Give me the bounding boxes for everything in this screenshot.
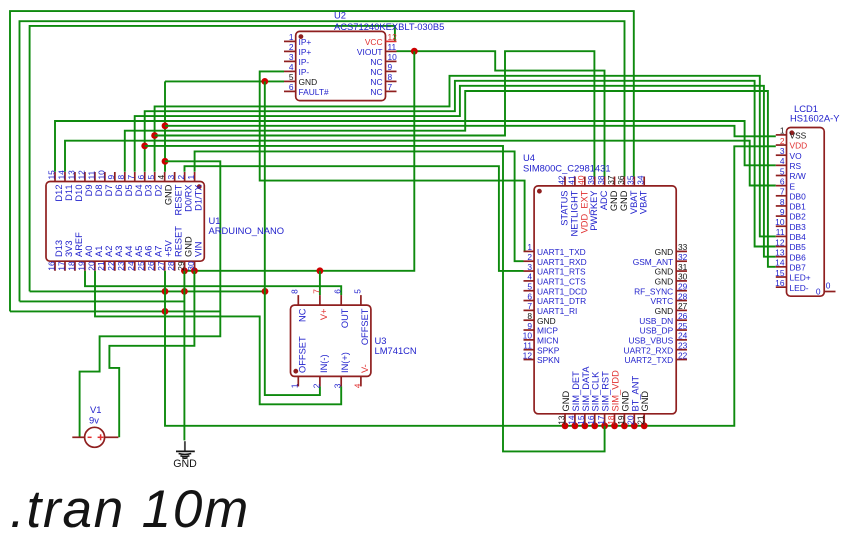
svg-text:29: 29 xyxy=(176,261,186,271)
svg-text:VRTC: VRTC xyxy=(651,296,674,306)
svg-text:11: 11 xyxy=(776,227,785,237)
svg-text:10: 10 xyxy=(388,52,398,62)
wire net A0 U1 pin19 to U3 pin6 OUT xyxy=(85,271,341,295)
svg-text:IN(-): IN(-) xyxy=(319,354,329,373)
svg-text:5: 5 xyxy=(289,72,294,82)
svg-text:8: 8 xyxy=(388,72,393,82)
svg-text:2: 2 xyxy=(527,252,532,262)
svg-text:D11: D11 xyxy=(64,185,74,201)
svg-text:15: 15 xyxy=(576,415,586,425)
svg-text:20: 20 xyxy=(86,261,96,271)
wire net VIOUT branch down to pins 29/30 row xyxy=(181,51,414,274)
svg-text:GND: GND xyxy=(655,276,674,286)
svg-text:NC: NC xyxy=(370,77,382,87)
wire net D1/TX U1 pin1 to U4 pin2 UART1_RXD xyxy=(195,151,524,261)
svg-text:GSM_ANT: GSM_ANT xyxy=(633,257,674,267)
wire net VCC loop to U2 pin12 xyxy=(30,26,395,292)
svg-text:17: 17 xyxy=(56,261,66,271)
svg-text:34: 34 xyxy=(636,175,646,185)
svg-text:GND: GND xyxy=(561,391,571,412)
svg-text:VIOUT: VIOUT xyxy=(357,47,383,57)
svg-text:GND: GND xyxy=(655,267,674,277)
svg-text:15: 15 xyxy=(775,268,785,278)
svg-text:SIM_DET: SIM_DET xyxy=(571,371,581,412)
svg-text:IP+: IP+ xyxy=(299,47,312,57)
svg-text:ACS71240KEXBLT-030B5: ACS71240KEXBLT-030B5 xyxy=(334,21,444,32)
svg-text:MICP: MICP xyxy=(537,326,558,336)
svg-text:IP-: IP- xyxy=(299,67,310,77)
svg-text:U4: U4 xyxy=(523,152,535,163)
svg-text:VDD_EXT: VDD_EXT xyxy=(579,190,589,233)
svg-text:A0: A0 xyxy=(84,246,94,257)
svg-text:9: 9 xyxy=(780,207,785,217)
svg-text:42: 42 xyxy=(556,175,566,185)
svg-text:13: 13 xyxy=(66,170,76,180)
svg-text:D1/TX: D1/TX xyxy=(194,185,204,211)
svg-text:38: 38 xyxy=(596,175,606,185)
svg-text:LED+: LED+ xyxy=(790,273,811,283)
svg-text:GND: GND xyxy=(655,306,674,316)
svg-text:2: 2 xyxy=(289,42,294,52)
svg-text:14: 14 xyxy=(566,415,576,425)
svg-text:12: 12 xyxy=(76,170,86,180)
svg-text:9: 9 xyxy=(388,62,393,72)
svg-text:DB7: DB7 xyxy=(790,262,807,272)
svg-text:12: 12 xyxy=(388,32,398,42)
svg-text:D8: D8 xyxy=(94,185,104,197)
svg-text:15: 15 xyxy=(46,170,56,180)
svg-text:40: 40 xyxy=(576,175,586,185)
svg-text:5: 5 xyxy=(527,282,532,292)
svg-text:10: 10 xyxy=(775,217,785,227)
svg-text:4: 4 xyxy=(527,272,532,282)
wire net VIOUT U2 pin11 to U4 pin38 ADC xyxy=(397,48,605,177)
svg-text:24: 24 xyxy=(678,331,688,341)
svg-text:GND: GND xyxy=(655,247,674,257)
svg-text:SIM_VDD: SIM_VDD xyxy=(611,370,621,412)
svg-text:10: 10 xyxy=(523,331,533,341)
svg-text:OFFSET: OFFSET xyxy=(297,336,307,373)
svg-text:USB_DN: USB_DN xyxy=(639,316,673,326)
svg-text:DB4: DB4 xyxy=(790,232,807,242)
svg-text:29: 29 xyxy=(678,282,688,292)
svg-text:D6: D6 xyxy=(114,185,124,197)
svg-text:5: 5 xyxy=(146,175,156,180)
svg-text:UART1_CTS: UART1_CTS xyxy=(537,276,586,286)
svg-text:5: 5 xyxy=(352,289,362,294)
svg-text:7: 7 xyxy=(126,175,136,180)
svg-text:VCC: VCC xyxy=(365,37,383,47)
svg-text:36: 36 xyxy=(616,175,626,185)
svg-text:26: 26 xyxy=(678,311,688,321)
svg-text:LM741CN: LM741CN xyxy=(375,345,417,356)
IC LCD1 HS1602A-Y 16x2 display (pins 1-16 and pin 0) xyxy=(775,103,840,297)
wire net D11 U1 pin14 to LCD E xyxy=(65,141,776,186)
wire net GND to U1 pin4 xyxy=(162,81,169,171)
svg-text:BT_ANT: BT_ANT xyxy=(630,376,640,412)
svg-text:U2: U2 xyxy=(334,10,346,21)
wire net D2 branch to U4 pin39 PWRKEY xyxy=(155,51,595,176)
svg-text:4: 4 xyxy=(289,62,294,72)
svg-text:NC: NC xyxy=(370,57,382,67)
svg-text:4: 4 xyxy=(352,383,362,388)
svg-text:UART1_DCD: UART1_DCD xyxy=(537,286,587,296)
wire net GND to battery minus xyxy=(80,161,221,437)
svg-text:21: 21 xyxy=(96,261,106,271)
svg-text:DB5: DB5 xyxy=(790,242,807,252)
wire net GND U2 pin5 line xyxy=(165,78,284,85)
svg-text:A1: A1 xyxy=(94,246,104,257)
svg-text:NC: NC xyxy=(297,308,307,322)
svg-text:UART1_RXD: UART1_RXD xyxy=(537,257,587,267)
svg-text:SIM_RST: SIM_RST xyxy=(601,371,611,412)
svg-text:VO: VO xyxy=(790,151,803,161)
svg-text:7: 7 xyxy=(780,187,785,197)
svg-text:7: 7 xyxy=(311,289,321,294)
svg-text:12: 12 xyxy=(523,350,533,360)
svg-text:41: 41 xyxy=(566,175,576,185)
svg-text:GND: GND xyxy=(184,236,194,257)
svg-text:GND: GND xyxy=(640,391,650,412)
svg-text:25: 25 xyxy=(678,321,688,331)
svg-text:8: 8 xyxy=(527,311,532,321)
svg-text:31: 31 xyxy=(678,262,688,272)
svg-text:16: 16 xyxy=(586,415,596,425)
svg-text:DB0: DB0 xyxy=(790,191,807,201)
wire net D3 U1 pin6 to LCD DB5 xyxy=(141,81,776,247)
svg-text:3V3: 3V3 xyxy=(64,240,74,257)
svg-text:NC: NC xyxy=(370,67,382,77)
svg-text:D13: D13 xyxy=(54,240,64,257)
svg-text:HS1602A-Y: HS1602A-Y xyxy=(790,113,840,124)
svg-text:0: 0 xyxy=(826,281,831,291)
svg-text:RESET: RESET xyxy=(174,226,184,257)
wire net VIN U1 pin30 to battery plus xyxy=(109,271,194,438)
svg-text:8: 8 xyxy=(780,197,785,207)
svg-text:UART2_TXD: UART2_TXD xyxy=(624,355,673,365)
svg-text:MICN: MICN xyxy=(537,335,558,345)
svg-text:D5: D5 xyxy=(124,185,134,197)
svg-text:10: 10 xyxy=(96,170,106,180)
svg-text:3: 3 xyxy=(780,146,785,156)
svg-text:27: 27 xyxy=(678,301,688,311)
svg-text:16: 16 xyxy=(46,261,56,271)
svg-text:6: 6 xyxy=(136,175,146,180)
svg-text:SIM_CLK: SIM_CLK xyxy=(591,371,601,412)
svg-text:22: 22 xyxy=(106,261,116,271)
voltage source V1 9v xyxy=(72,404,118,447)
svg-text:GND: GND xyxy=(164,184,174,205)
svg-text:18: 18 xyxy=(606,415,616,425)
wire net D2 U1 pin5 to LCD DB4 xyxy=(151,76,776,237)
svg-text:23: 23 xyxy=(116,261,126,271)
svg-text:30: 30 xyxy=(186,261,196,271)
svg-text:2: 2 xyxy=(176,175,186,180)
svg-text:3: 3 xyxy=(289,52,294,62)
svg-text:SPKN: SPKN xyxy=(537,355,560,365)
svg-text:AREF: AREF xyxy=(74,232,84,257)
wire net +5V/VBAT loop (left-top) xyxy=(10,11,634,311)
svg-text:D7: D7 xyxy=(104,185,114,197)
svg-text:SPKP: SPKP xyxy=(537,345,560,355)
svg-text:A7: A7 xyxy=(154,246,164,257)
wire net D12 U1 pin15 to LCD RS xyxy=(55,121,776,172)
svg-text:UART1_RI: UART1_RI xyxy=(537,306,577,316)
svg-text:32: 32 xyxy=(678,252,688,262)
svg-text:IP+: IP+ xyxy=(299,37,312,47)
svg-text:GND: GND xyxy=(620,391,630,412)
svg-text:OFFSET: OFFSET xyxy=(360,308,370,345)
svg-text:1: 1 xyxy=(289,32,294,42)
svg-text:11: 11 xyxy=(388,42,397,52)
svg-text:FAULT#: FAULT# xyxy=(299,87,329,97)
svg-text:6: 6 xyxy=(527,291,532,301)
svg-text:D2: D2 xyxy=(154,185,164,197)
svg-text:OUT: OUT xyxy=(340,308,350,328)
svg-text:UART1_DTR: UART1_DTR xyxy=(537,296,586,306)
wire net GND rail to U1 pin29 xyxy=(20,300,185,302)
svg-text:A4: A4 xyxy=(124,246,134,257)
svg-text:5: 5 xyxy=(780,166,785,176)
svg-text:V+: V+ xyxy=(319,309,329,321)
svg-text:USB_VBUS: USB_VBUS xyxy=(629,335,674,345)
svg-text:11: 11 xyxy=(523,341,532,351)
ground symbol GND xyxy=(173,441,197,470)
svg-text:9: 9 xyxy=(106,175,116,180)
svg-text:28: 28 xyxy=(678,291,688,301)
svg-text:2: 2 xyxy=(311,383,321,388)
wire net IP- U2 pin4 to U4 pin1 UART1_TXD xyxy=(260,71,525,251)
svg-text:VBAT: VBAT xyxy=(629,190,639,214)
svg-text:6: 6 xyxy=(333,289,343,294)
svg-text:UART2_RXD: UART2_RXD xyxy=(624,345,674,355)
svg-text:STATUS: STATUS xyxy=(560,191,570,226)
svg-text:6: 6 xyxy=(780,176,785,186)
svg-text:19: 19 xyxy=(616,415,626,425)
wire net VCC rail xyxy=(30,288,269,295)
svg-text:VSS: VSS xyxy=(790,131,807,141)
svg-text:27: 27 xyxy=(156,261,166,271)
svg-text:VBAT: VBAT xyxy=(639,190,649,214)
svg-text:GND: GND xyxy=(173,458,197,470)
wire net D3 branch to U4 pin17 SIM_RST xyxy=(145,146,605,452)
svg-text:RF_SYNC: RF_SYNC xyxy=(634,286,673,296)
svg-text:2: 2 xyxy=(780,136,785,146)
svg-text:A2: A2 xyxy=(104,246,114,257)
svg-text:35: 35 xyxy=(626,175,636,185)
svg-text:VIN: VIN xyxy=(194,242,204,258)
IC U4 SIM800C_C2981431 GSM module (pins 1-42, pin1 marker dot) xyxy=(523,152,688,425)
svg-text:D12: D12 xyxy=(54,185,64,202)
svg-text:ARDUINO_NANO: ARDUINO_NANO xyxy=(209,225,285,236)
svg-text:D0/RX: D0/RX xyxy=(184,185,194,212)
wire net D4 U1 pin7 to LCD DB6 xyxy=(135,86,776,257)
svg-text:21: 21 xyxy=(636,415,646,425)
wire net GND loop (left-top 2) xyxy=(20,21,625,301)
svg-text:23: 23 xyxy=(678,341,688,351)
svg-text:18: 18 xyxy=(66,261,76,271)
svg-text:VDD: VDD xyxy=(790,141,808,151)
svg-text:NETLIGHT: NETLIGHT xyxy=(569,190,579,236)
svg-text:1: 1 xyxy=(186,175,196,180)
svg-text:12: 12 xyxy=(775,237,785,247)
svg-text:13: 13 xyxy=(775,248,785,258)
svg-text:8: 8 xyxy=(116,175,126,180)
pin 0 LCD right xyxy=(824,291,835,293)
svg-text:DB3: DB3 xyxy=(790,222,807,232)
svg-text:A5: A5 xyxy=(134,246,144,257)
svg-text:22: 22 xyxy=(678,350,688,360)
wire net V+ riser to U3 pin7 xyxy=(319,271,321,295)
wire net A1 U1 pin20 to U3 pin3 IN+ xyxy=(95,271,341,405)
svg-text:NC: NC xyxy=(370,87,382,97)
svg-text:IP-: IP- xyxy=(299,57,310,67)
svg-text:3: 3 xyxy=(527,262,532,272)
svg-text:16: 16 xyxy=(775,278,785,288)
svg-text:3: 3 xyxy=(166,175,176,180)
svg-text:A3: A3 xyxy=(114,246,124,257)
svg-text:GND: GND xyxy=(619,190,629,211)
svg-text:25: 25 xyxy=(136,261,146,271)
svg-text:24: 24 xyxy=(126,261,136,271)
svg-text:39: 39 xyxy=(586,175,596,185)
svg-text:D9: D9 xyxy=(84,185,94,197)
svg-text:LED-: LED- xyxy=(790,283,809,293)
svg-text:D4: D4 xyxy=(134,185,144,197)
svg-text:7: 7 xyxy=(527,301,532,311)
wire net GND to LCD pin1 VSS xyxy=(165,126,776,137)
svg-text:UART1_TXD: UART1_TXD xyxy=(537,247,586,257)
svg-text:DB2: DB2 xyxy=(790,212,807,222)
svg-text:D3: D3 xyxy=(144,185,154,197)
svg-text:RS: RS xyxy=(790,161,802,171)
IC U1 ARDUINO_NANO (pins 1-30, pin1 marker dot) xyxy=(46,170,284,271)
svg-text:14: 14 xyxy=(775,258,785,268)
svg-text:6: 6 xyxy=(289,82,294,92)
svg-text:7: 7 xyxy=(388,82,393,92)
svg-text:D10: D10 xyxy=(74,185,84,202)
svg-text:SIM800C_C2981431: SIM800C_C2981431 xyxy=(523,163,611,174)
wire net D5 U1 pin8 to LCD DB7 xyxy=(125,91,776,267)
svg-text:20: 20 xyxy=(626,415,636,425)
svg-text:8: 8 xyxy=(290,289,300,294)
svg-text:14: 14 xyxy=(56,170,66,180)
svg-text:30: 30 xyxy=(678,272,688,282)
svg-text:SIM_DATA: SIM_DATA xyxy=(581,366,591,412)
svg-text:4: 4 xyxy=(780,156,785,166)
svg-text:DB1: DB1 xyxy=(790,202,807,212)
svg-text:1: 1 xyxy=(780,126,785,136)
svg-text:GND: GND xyxy=(609,190,619,211)
svg-text:1: 1 xyxy=(527,242,532,252)
svg-text:DB6: DB6 xyxy=(790,252,807,262)
svg-text:PWRKEY: PWRKEY xyxy=(589,191,599,231)
wire net GND U1 pin29 to ground symbol xyxy=(183,271,185,441)
wire net +5V U1 pin27 to SIM bottom rail and LCD VDD xyxy=(165,146,776,429)
svg-text:RESET: RESET xyxy=(174,184,184,215)
svg-text:1: 1 xyxy=(290,383,300,388)
wire net D0/RX U1 pin2 to U4 pin3 UART1_RTS xyxy=(185,166,524,271)
op-amp U3 LM741CN (pins 1-8, pin1 marker dot) xyxy=(290,289,417,388)
svg-text:0: 0 xyxy=(816,287,821,297)
svg-text:3: 3 xyxy=(333,383,343,388)
svg-text:33: 33 xyxy=(678,242,688,252)
svg-text:E: E xyxy=(790,181,796,191)
svg-text:UART1_RTS: UART1_RTS xyxy=(537,267,586,277)
svg-text:GND: GND xyxy=(537,316,556,326)
svg-text:R/W: R/W xyxy=(790,171,806,181)
svg-text:26: 26 xyxy=(146,261,156,271)
svg-text:V1: V1 xyxy=(90,404,101,415)
svg-text:.tran 10m: .tran 10m xyxy=(10,480,250,539)
svg-text:13: 13 xyxy=(556,415,566,425)
svg-text:17: 17 xyxy=(596,415,606,425)
svg-text:37: 37 xyxy=(606,175,616,185)
svg-text:USB_DP: USB_DP xyxy=(640,326,674,336)
wire net GND U2 branch down to U3 pin2 xyxy=(265,81,320,395)
svg-text:GND: GND xyxy=(299,77,318,87)
svg-text:V-: V- xyxy=(360,364,370,373)
svg-text:19: 19 xyxy=(76,261,86,271)
svg-text:A6: A6 xyxy=(144,246,154,257)
IC U2 ACS71240KEXBLT-030B5 current sensor (pins 1-12, pin1 marker dot) xyxy=(284,10,444,101)
svg-text:+5V: +5V xyxy=(164,239,174,257)
svg-text:11: 11 xyxy=(86,170,96,179)
wire net +5V rail to U1 pin27 xyxy=(10,308,220,315)
svg-text:4: 4 xyxy=(156,175,166,180)
svg-text:28: 28 xyxy=(166,261,176,271)
svg-text:9: 9 xyxy=(527,321,532,331)
svg-text:IN(+): IN(+) xyxy=(340,352,350,373)
svg-text:9v: 9v xyxy=(89,415,99,426)
svg-text:ADC: ADC xyxy=(599,190,609,210)
